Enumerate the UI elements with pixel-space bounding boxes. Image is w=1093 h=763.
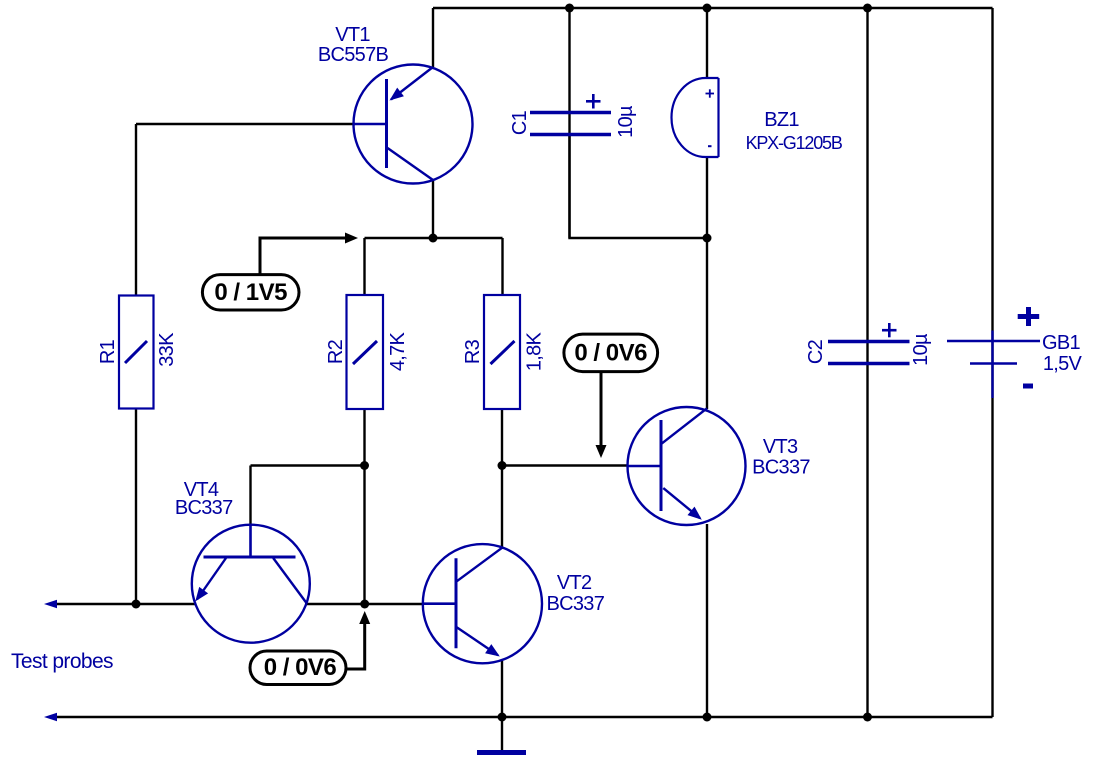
wire C2 vertical full [866,8,868,717]
svg-text:C2: C2 [805,339,827,364]
junction dot C2 bottom [863,713,872,722]
svg-text:1,8K: 1,8K [524,331,546,371]
junction dot top rail BZ1 [703,4,712,13]
svg-text:VT1: VT1 [335,24,370,46]
wire test probe upper left segment [50,603,196,605]
wire VT3 emitter vertical [706,524,708,717]
resistor R2 [347,295,384,409]
buzzer BZ1 KPX-G1205B [672,78,719,157]
junction dot top rail C1 [565,4,574,13]
GB1 minus sign [1023,384,1033,389]
wire VT3 base horizontal [502,464,628,466]
probe arrow lower [44,713,57,721]
wire VT2 emitter vertical [501,660,503,717]
wire VT1 collector bottom stub [432,180,434,238]
battery GB1 [947,331,1040,399]
wire BZ1 bottom to VT3 collector [706,156,708,409]
wire VT4 collector to VT2 base segment [305,603,424,605]
svg-text:4,7K: 4,7K [387,331,409,371]
transistor VT4 BC337 [192,525,310,643]
capacitor C2 [828,342,910,364]
junction dot node A [429,234,438,243]
wire BZ1 top vertical [706,8,708,79]
svg-text:BC337: BC337 [546,593,604,615]
svg-text:1,5V: 1,5V [1043,353,1083,375]
wire top supply rail [433,7,993,9]
pointer 0 / 1V5 [202,233,358,311]
resistor R3 [484,295,520,409]
wire ground stub [501,717,503,751]
svg-text:BC337: BC337 [752,457,810,479]
wire node A horizontal R2-R3 [365,237,503,239]
junction dot VT2 emitter [498,713,507,722]
svg-text:Test probes: Test probes [11,650,113,673]
BZ1 minus sign [708,145,712,147]
wire R2 top vertical [363,238,365,296]
svg-text:BZ1: BZ1 [764,109,799,131]
svg-text:R3: R3 [462,339,484,364]
wire R2 bottom vertical [363,408,365,604]
junction dot R1 probe node [132,600,141,609]
svg-text:C1: C1 [509,110,531,135]
svg-text:VT2: VT2 [557,572,592,594]
junction dot VT3 emitter [703,713,712,722]
svg-text:0 / 1V5: 0 / 1V5 [214,279,287,306]
wire VT4 base horizontal [251,464,365,466]
C2 plus sign [882,323,897,337]
svg-text:VT3: VT3 [763,436,798,458]
wire bottom probe rail [50,716,993,718]
svg-text:R1: R1 [97,339,119,364]
resistor R1 [119,296,154,409]
svg-text:0 / 0V6: 0 / 0V6 [574,340,647,367]
C1 plus sign [586,94,601,109]
junction dot top rail C2 [863,4,872,13]
wire VT1 emitter top stub [432,8,434,67]
svg-text:BC557B: BC557B [318,44,389,66]
svg-text:BC337: BC337 [175,497,233,519]
transistor VT2 BC337 [423,544,542,663]
capacitor C1 [530,113,611,135]
wire R1 top vertical [135,124,137,296]
svg-text:10µ: 10µ [615,105,637,138]
wire C1 bottom to BZ1 [570,134,708,238]
wire C1 top vertical [568,8,570,238]
svg-text:33K: 33K [156,332,178,367]
ground [477,750,526,755]
wire VT4 base vertical [249,466,251,527]
wire GB1 vertical [991,8,993,717]
transistor VT3 BC337 [628,407,746,525]
probe arrow upper [44,600,57,608]
wire R3 bottom vertical [501,408,503,466]
svg-text:GB1: GB1 [1042,332,1080,354]
junction dot R2 VT4 base node [360,461,369,470]
BZ1 plus sign [706,89,715,97]
transistor VT1 BC557B [353,65,473,184]
wire VT2 collector vertical [501,466,503,550]
svg-text:KPX-G1205B: KPX-G1205B [746,133,843,153]
svg-text:R2: R2 [325,339,347,364]
svg-text:0 / 0V6: 0 / 0V6 [264,654,337,681]
junction dot R3 VT2 collector node [498,461,507,470]
junction dot VT4 collector node [360,600,369,609]
GB1 plus sign [1018,307,1039,326]
junction dot BZ1 bottom [703,234,712,243]
pointer 0 / 0V6 lower [250,611,370,685]
pointer 0 / 0V6 upper [564,334,658,458]
wire VT1 base lead horizontal [136,123,355,125]
svg-text:10µ: 10µ [910,333,932,366]
wire R1 bottom vertical [135,408,137,604]
wire R3 top vertical [501,238,503,296]
